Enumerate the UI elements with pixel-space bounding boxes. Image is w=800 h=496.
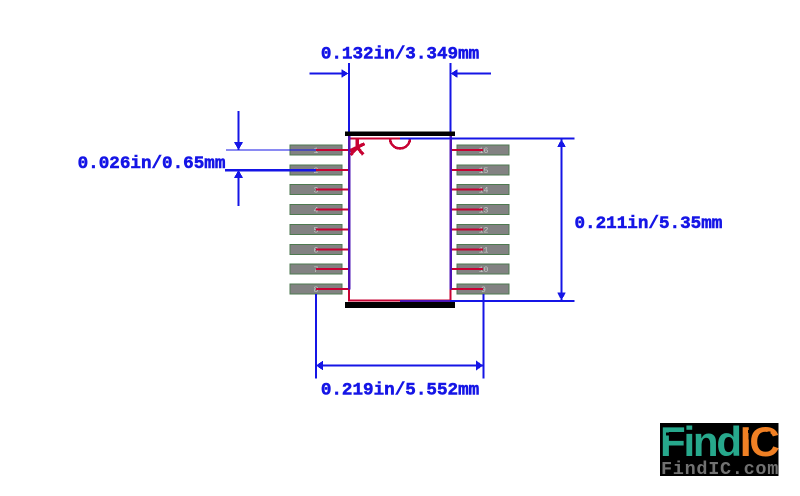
pin number 13 xyxy=(479,207,489,216)
pad pin 2 xyxy=(290,165,342,175)
pad pin 7 xyxy=(290,264,342,274)
body top outline xyxy=(348,138,451,140)
svg-text:15: 15 xyxy=(479,167,489,176)
bottom dim text 0.219in/5.552mm xyxy=(321,381,479,401)
svg-text:FindIC.com: FindIC.com xyxy=(661,459,779,480)
lead pin 4 xyxy=(316,209,349,211)
pad pin 15 xyxy=(457,165,509,175)
svg-text:13: 13 xyxy=(479,207,489,216)
body right edge red segment below pin 9 xyxy=(450,289,452,301)
bottom dim left extension line xyxy=(315,294,317,379)
pin number 11 xyxy=(479,246,489,255)
lead pin 13 xyxy=(451,209,484,211)
pin number 6 xyxy=(314,246,319,255)
pad pin 12 xyxy=(457,224,509,234)
svg-text:4: 4 xyxy=(314,207,319,216)
svg-text:7: 7 xyxy=(314,266,319,275)
body left edge red segment below pin 8 xyxy=(348,289,350,301)
pin number 8 xyxy=(314,286,319,295)
bottom dim right extension line xyxy=(483,294,485,379)
right dim text 0.211in/5.35mm xyxy=(575,214,723,234)
right dim arrow down xyxy=(557,293,566,301)
svg-text:8: 8 xyxy=(314,286,319,295)
svg-text:11: 11 xyxy=(479,246,489,255)
pin-1 marker asterisk xyxy=(350,139,364,155)
left dim arrow down xyxy=(234,142,243,150)
bottom dim horizontal line xyxy=(317,365,483,367)
svg-text:12: 12 xyxy=(479,226,489,235)
lead pin 5 xyxy=(316,228,349,230)
right dim bottom extension line blue xyxy=(450,300,575,302)
FindIC logo wordmark xyxy=(660,418,779,465)
svg-text:0.132in/3.349mm: 0.132in/3.349mm xyxy=(321,45,479,65)
pin number 5 xyxy=(314,226,319,235)
svg-text:3: 3 xyxy=(314,187,319,196)
left dim vertical line lower xyxy=(238,171,240,207)
svg-text:14: 14 xyxy=(479,187,489,196)
top dim left vertical line xyxy=(348,63,350,132)
pad pin 10 xyxy=(457,264,509,274)
lead pin 11 xyxy=(451,248,484,250)
pin number 14 xyxy=(479,187,489,196)
pad pin 4 xyxy=(290,205,342,215)
top dim right vertical line xyxy=(450,63,452,132)
pad pin 6 xyxy=(290,244,342,254)
pin number 12 xyxy=(479,226,489,235)
lead pin 9 xyxy=(451,288,484,290)
pin number 7 xyxy=(314,266,319,275)
pin number 15 xyxy=(479,167,489,176)
right dim vertical line xyxy=(561,140,563,301)
right dim top extension line xyxy=(400,138,575,140)
right dim bottom extension line purple overlap xyxy=(400,300,450,302)
pad pin 8 xyxy=(290,284,342,294)
lead pin 15 xyxy=(451,169,484,171)
top dim left leader line xyxy=(310,73,343,75)
body left edge purple (dimension line over red outline) xyxy=(348,136,351,290)
pin number 1 xyxy=(314,147,319,156)
lead pin 3 xyxy=(316,189,349,191)
body bottom bar xyxy=(345,302,455,308)
pad pin 16 xyxy=(457,145,509,155)
lead pin 12 xyxy=(451,228,484,230)
pad pin 14 xyxy=(457,185,509,195)
svg-text:0.026in/0.65mm: 0.026in/0.65mm xyxy=(78,154,226,174)
logo via dots xyxy=(666,430,771,452)
left dim pin2 extension line xyxy=(225,169,316,172)
svg-text:0.211in/5.35mm: 0.211in/5.35mm xyxy=(575,214,723,234)
pad pin 3 xyxy=(290,185,342,195)
pad pin 9 xyxy=(457,284,509,294)
body top bar xyxy=(345,132,455,137)
right dim arrow up xyxy=(557,139,566,147)
svg-text:9: 9 xyxy=(481,286,486,295)
pad pin 5 xyxy=(290,224,342,234)
top dim right leader line xyxy=(457,73,491,75)
body right edge purple (dimension line over red outline) xyxy=(449,136,452,290)
svg-text:10: 10 xyxy=(479,266,489,275)
FindIC logo background xyxy=(660,423,779,476)
lead pin 2 xyxy=(316,169,349,171)
bottom dim arrow left xyxy=(316,361,323,371)
lead pin 16 xyxy=(451,149,484,151)
svg-text:5: 5 xyxy=(314,226,319,235)
svg-text:0.219in/5.552mm: 0.219in/5.552mm xyxy=(321,381,479,401)
pad pin 13 xyxy=(457,205,509,215)
svg-text:6: 6 xyxy=(314,246,319,255)
top dim text 0.132in/3.349mm xyxy=(321,45,479,65)
pad pin 1 xyxy=(290,145,342,155)
pin number 4 xyxy=(314,207,319,216)
left dim text 0.026in/0.65mm xyxy=(78,154,226,174)
pin number 16 xyxy=(479,147,489,156)
left dim vertical line upper xyxy=(238,111,240,150)
top dim left arrow xyxy=(341,69,348,78)
bottom dim arrow right xyxy=(476,361,483,371)
lead pin 10 xyxy=(451,268,484,270)
svg-text:FindIC: FindIC xyxy=(660,418,779,465)
svg-text:1: 1 xyxy=(314,147,319,156)
pin number 3 xyxy=(314,187,319,196)
lead pin 14 xyxy=(451,189,484,191)
top dim right arrow xyxy=(451,69,458,78)
FindIC.com tagline xyxy=(661,459,779,480)
svg-text:16: 16 xyxy=(479,147,489,156)
pin number 2 xyxy=(314,167,319,176)
lead pin 1 xyxy=(316,149,349,151)
lead pin 6 xyxy=(316,248,349,250)
pin number 10 xyxy=(479,266,489,275)
body bottom outline xyxy=(348,300,451,302)
left dim pin1 extension line xyxy=(226,149,316,151)
lead pin 8 xyxy=(316,288,349,290)
lead pin 7 xyxy=(316,268,349,270)
pin number 9 xyxy=(481,286,486,295)
notch semicircle xyxy=(390,139,410,149)
left dim arrow up xyxy=(234,170,243,178)
pad pin 11 xyxy=(457,244,509,254)
